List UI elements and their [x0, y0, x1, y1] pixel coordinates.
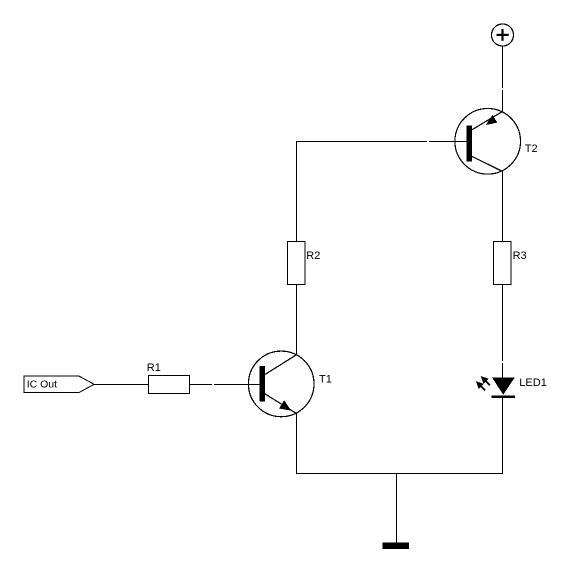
wire R1 to T1 base, with joint gap [190, 384, 213, 386]
wire supply to T2 emitter, with joint gap [502, 46, 504, 88]
svg-text:R3: R3 [513, 250, 527, 262]
wire corner down to R2 [296, 141, 298, 242]
wire R3 to LED1, with joint gap [502, 285, 504, 362]
svg-text:T2: T2 [525, 143, 538, 155]
transistor T2 (PNP) [455, 109, 521, 175]
power supply + terminal [492, 24, 514, 46]
wire IC Out to R1 [94, 384, 149, 386]
transistor T1 (NPN) [248, 351, 314, 417]
resistor R1 [149, 376, 190, 394]
resistor R3 [494, 242, 512, 285]
wire T2 collector to R3 [502, 171, 504, 242]
wire R2 to T1 collector [296, 285, 298, 356]
wire ground stem [396, 473, 398, 543]
wire T2 base, with joint gap [296, 141, 427, 143]
svg-text:IC Out: IC Out [27, 379, 57, 391]
svg-text:LED1: LED1 [519, 377, 547, 389]
LED LED1 [476, 376, 515, 398]
wire LED1 down [502, 398, 504, 473]
connector IC Out [24, 376, 94, 393]
svg-text:T1: T1 [319, 374, 332, 386]
wire bottom horizontal [296, 473, 503, 475]
resistor R2 [288, 242, 306, 285]
svg-text:R2: R2 [306, 250, 320, 262]
wire T1 emitter down [296, 414, 298, 474]
svg-text:R1: R1 [147, 362, 161, 374]
ground [383, 543, 410, 550]
